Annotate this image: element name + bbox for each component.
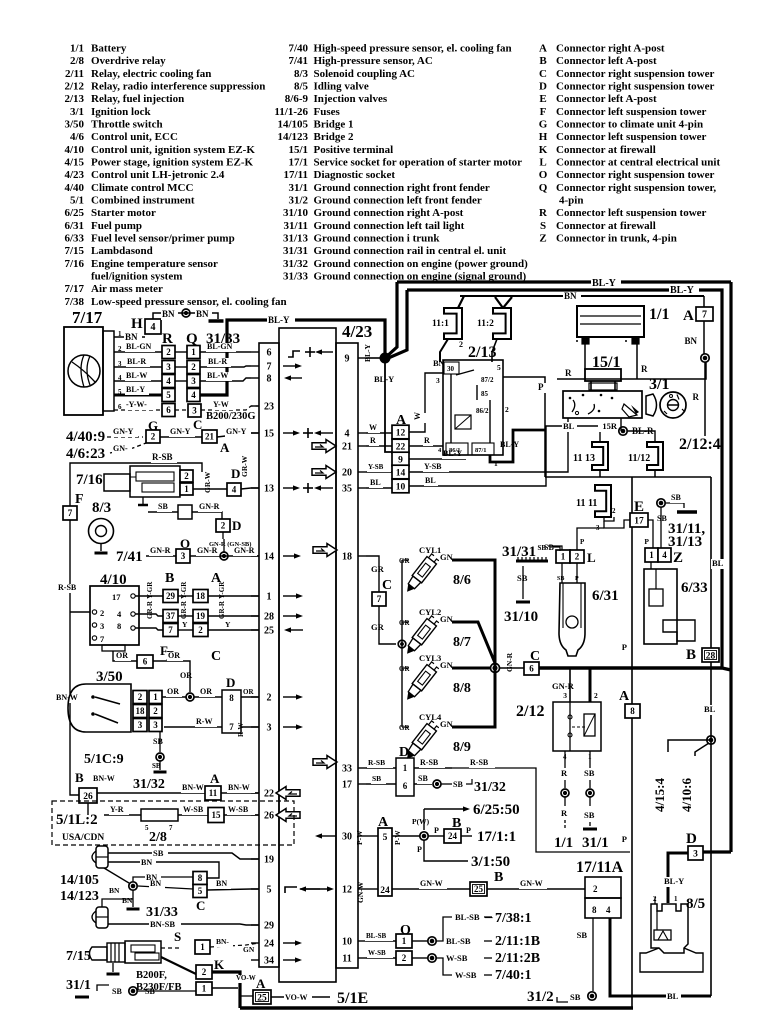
svg-text:R-SB: R-SB: [58, 583, 77, 592]
svg-text:High-pressure sensor, AC: High-pressure sensor, AC: [314, 55, 433, 67]
svg-text:86/1: 86/1: [449, 447, 461, 454]
label 4/40:9: [66, 429, 105, 445]
svg-text:BN-W: BN-W: [93, 774, 115, 783]
svg-text:F: F: [160, 643, 168, 658]
svg-text:R-SB: R-SB: [368, 758, 385, 767]
relay 2/13 internals: [433, 358, 509, 468]
svg-text:5/1E: 5/1E: [337, 990, 368, 1007]
label B200/230G: [206, 411, 256, 422]
ground 31/1 left: [66, 978, 196, 997]
control unit 4/10 box: [90, 586, 139, 651]
svg-text:2/11:2B: 2/11:2B: [495, 951, 540, 966]
label 2/12:4: [679, 436, 721, 453]
svg-text:Lambdasond: Lambdasond: [91, 245, 153, 257]
svg-text:8/8: 8/8: [453, 681, 471, 696]
svg-text:2: 2: [593, 884, 598, 894]
pin numbers right strip of 4/23: [342, 354, 366, 965]
svg-text:2: 2: [151, 432, 156, 442]
wire R row: [366, 436, 443, 446]
svg-text:GR: GR: [371, 564, 385, 574]
svg-text:3: 3: [191, 376, 196, 386]
svg-text:A: A: [683, 308, 694, 324]
label 8/3: [92, 500, 111, 516]
USA/CDN dashed box: [52, 801, 294, 845]
svg-text:Connector right suspension tow: Connector right suspension tower: [556, 169, 715, 181]
label R column: [162, 331, 173, 347]
svg-text:BN: BN: [196, 309, 209, 319]
connector K box 2: [196, 957, 225, 979]
svg-text:SB: SB: [418, 774, 428, 783]
svg-text:7/17: 7/17: [64, 283, 84, 295]
svg-text:L: L: [587, 550, 596, 565]
wire BL-SB row10: [365, 932, 436, 945]
wire GN-Y mid: [160, 427, 202, 437]
legend key text: [64, 43, 720, 308]
ground 31/10: [504, 566, 538, 625]
connector boxes 7/16: [180, 470, 193, 495]
svg-text:OR: OR: [180, 671, 192, 680]
svg-text:2: 2: [138, 692, 143, 702]
svg-text:31/10: 31/10: [504, 609, 538, 625]
svg-text:BL: BL: [563, 421, 575, 431]
svg-text:S: S: [174, 929, 181, 944]
svg-text:BL: BL: [425, 476, 436, 485]
svg-text:BL: BL: [712, 558, 724, 568]
svg-text:4/23: 4/23: [64, 169, 84, 181]
svg-text:CYL2: CYL2: [419, 607, 441, 617]
wire SB row17: [366, 774, 506, 795]
connector A box 25 bottom: [240, 976, 271, 1004]
svg-text:SB: SB: [372, 774, 381, 783]
svg-text:Control unit, ECC: Control unit, ECC: [91, 131, 178, 143]
wire P from relay: [503, 377, 547, 477]
label 5/1L:2: [56, 812, 98, 828]
svg-text:fuel/ignition system: fuel/ignition system: [91, 271, 182, 283]
svg-text:BN: BN: [433, 358, 446, 368]
wire BN to C8: [108, 858, 219, 878]
svg-text:8/6: 8/6: [453, 573, 471, 588]
svg-text:P-W: P-W: [355, 830, 364, 845]
svg-text:6: 6: [143, 657, 148, 667]
svg-text:D: D: [686, 831, 697, 847]
svg-text:Y-SB: Y-SB: [424, 462, 442, 471]
svg-text:BL-Y: BL-Y: [126, 385, 145, 394]
fuel sender 6/33 body: [644, 569, 695, 644]
svg-text:A: A: [220, 440, 230, 455]
svg-text:P: P: [575, 576, 579, 582]
ignition lock 3/1 body: [563, 391, 657, 418]
svg-text:BN: BN: [564, 291, 577, 301]
connector Z boxes: [645, 548, 683, 566]
label GN pin24: [243, 945, 255, 954]
relay 2/13 box: [443, 360, 503, 455]
svg-text:Fuel pump: Fuel pump: [91, 220, 142, 232]
svg-text:Ground connection right A-post: Ground connection right A-post: [314, 207, 464, 219]
connector L boxes: [537, 544, 596, 565]
svg-text:31/1: 31/1: [582, 835, 609, 851]
label 7/17: [72, 308, 103, 327]
svg-text:GR: GR: [371, 622, 385, 632]
svg-text:2/8: 2/8: [70, 55, 85, 67]
svg-text:B200/230G: B200/230G: [206, 411, 256, 422]
svg-text:GN: GN: [440, 614, 454, 624]
svg-text:Fuel level sensor/primer pump: Fuel level sensor/primer pump: [91, 233, 235, 245]
svg-text:22: 22: [264, 789, 274, 800]
connector C box 21: [193, 417, 230, 455]
wire Y-GR row1: [135, 581, 259, 599]
svg-text:15/1: 15/1: [288, 144, 308, 156]
svg-text:GN-Y: GN-Y: [226, 427, 247, 436]
svg-text:GN-R: GN-R: [199, 502, 220, 511]
connector F box 6: [137, 643, 168, 668]
svg-text:25: 25: [474, 884, 484, 894]
wire fuse bottoms: [545, 470, 711, 477]
svg-text:9: 9: [398, 455, 403, 465]
svg-text:1: 1: [153, 692, 158, 702]
svg-text:SB: SB: [584, 810, 595, 820]
svg-text:7: 7: [168, 625, 173, 635]
svg-text:3/1: 3/1: [70, 106, 84, 118]
fuse 11:1: [432, 296, 464, 362]
svg-text:2: 2: [166, 347, 171, 357]
svg-text:P: P: [538, 382, 544, 392]
svg-text:C: C: [193, 417, 202, 432]
svg-text:1: 1: [561, 552, 566, 562]
svg-text:BL-SB: BL-SB: [446, 936, 471, 946]
svg-text:OR: OR: [167, 687, 179, 696]
wire OR to pin 2: [241, 688, 259, 697]
wire P drop: [622, 477, 632, 1008]
wire GN-R mid: [190, 546, 259, 556]
indicator lamp 14/123: [92, 907, 108, 928]
svg-text:31/13: 31/13: [668, 534, 702, 550]
svg-text:1: 1: [200, 942, 205, 952]
throttle switch connector boxes: [133, 691, 162, 732]
wire BL-Y relay out: [490, 430, 546, 462]
wire Y-R: [104, 805, 141, 815]
svg-text:SB: SB: [584, 768, 595, 778]
svg-text:2: 2: [184, 471, 189, 481]
svg-text:4/23: 4/23: [342, 322, 372, 341]
svg-text:24: 24: [264, 939, 274, 950]
svg-text:BL-Y: BL-Y: [592, 278, 617, 289]
svg-text:D: D: [539, 81, 547, 93]
svg-text:Starter motor: Starter motor: [91, 207, 156, 219]
svg-text:BN: BN: [141, 858, 152, 867]
svg-text:Connector left A-post: Connector left A-post: [556, 93, 657, 105]
svg-text:11: 11: [342, 954, 351, 965]
svg-text:BN-W: BN-W: [182, 783, 204, 792]
svg-text:8: 8: [198, 873, 203, 883]
connector A boxes right: [392, 425, 409, 493]
svg-text:P: P: [622, 834, 627, 844]
svg-text:6/31: 6/31: [64, 220, 84, 232]
injection valve 8/9 CYL4: [398, 712, 471, 762]
svg-text:Overdrive relay: Overdrive relay: [91, 55, 166, 67]
label B column 4/10: [165, 571, 174, 586]
svg-text:Service socket for operation o: Service socket for operation of starter …: [314, 157, 523, 169]
svg-text:Connector right suspension tow: Connector right suspension tower: [556, 68, 715, 80]
svg-text:17/11A: 17/11A: [576, 859, 624, 876]
svg-text:Throttle switch: Throttle switch: [91, 119, 163, 131]
wire BL right drop: [703, 477, 726, 996]
svg-text:Positive terminal: Positive terminal: [314, 144, 394, 156]
junction BL-Y: [380, 353, 391, 364]
svg-text:GN: GN: [440, 552, 454, 562]
connector S box 1: [174, 929, 210, 954]
svg-text:6/33: 6/33: [681, 580, 708, 596]
label 7/16: [76, 472, 103, 488]
svg-text:CYL3: CYL3: [419, 653, 441, 663]
wire BL-Y outer frame top: [397, 278, 731, 289]
svg-text:B: B: [494, 870, 503, 885]
svg-text:GN-Y: GN-Y: [170, 427, 191, 436]
svg-text:Power stage, ignition system E: Power stage, ignition system EZ-K: [91, 157, 253, 169]
svg-text:Connector left suspension towe: Connector left suspension tower: [556, 106, 707, 118]
svg-text:3: 3: [166, 362, 171, 372]
svg-text:BN-W: BN-W: [228, 783, 250, 792]
junction BN R: [693, 354, 710, 436]
svg-text:5/1C:9: 5/1C:9: [84, 752, 124, 767]
svg-text:H: H: [131, 316, 143, 332]
svg-text:GN-W: GN-W: [520, 879, 543, 888]
wire BL-Y over 4/23: [199, 315, 385, 395]
svg-text:D: D: [226, 675, 235, 690]
wire 11 11 to E17: [577, 520, 631, 550]
svg-text:2: 2: [191, 362, 196, 372]
label 17/11A: [576, 859, 624, 876]
label 4/23: [342, 322, 372, 341]
svg-text:4/15:4: 4/15:4: [652, 778, 667, 812]
svg-text:Idling valve: Idling valve: [314, 81, 369, 93]
svg-text:87/1: 87/1: [475, 447, 487, 454]
svg-text:11/1-26: 11/1-26: [274, 106, 308, 118]
label A above box5: [452, 816, 461, 831]
wire GN-R thick main: [539, 668, 731, 670]
svg-text:BN: BN: [122, 896, 133, 905]
svg-text:31/10: 31/10: [283, 207, 309, 219]
svg-text:5/1L:2: 5/1L:2: [56, 812, 98, 828]
label 1/1 battery: [649, 306, 669, 323]
connector D boxes 1-6: [396, 745, 414, 796]
svg-text:1: 1: [494, 459, 498, 468]
svg-text:7/41: 7/41: [288, 55, 308, 67]
svg-text:Battery: Battery: [91, 43, 127, 55]
svg-text:85: 85: [481, 390, 489, 398]
connector B box 28: [686, 647, 719, 663]
svg-text:21: 21: [205, 432, 215, 442]
wire GR-R row2: [135, 600, 259, 619]
svg-text:GR-R: GR-R: [218, 600, 226, 619]
label Q column: [186, 331, 198, 347]
svg-text:A: A: [256, 976, 266, 991]
wires to right labels: [436, 911, 540, 983]
label 6/33: [681, 580, 708, 596]
svg-text:Connector left A-post: Connector left A-post: [556, 55, 657, 67]
svg-text:9: 9: [345, 354, 350, 365]
svg-text:28: 28: [264, 612, 274, 623]
svg-text:Ground connection right front: Ground connection right front fender: [314, 182, 490, 194]
svg-text:3: 3: [100, 621, 104, 631]
svg-text:L: L: [539, 157, 546, 169]
injection valve 8/8 CYL3: [398, 653, 471, 703]
svg-text:OR: OR: [168, 651, 180, 660]
svg-text:-Y-W-: -Y-W-: [126, 400, 147, 409]
svg-text:SB: SB: [158, 502, 168, 511]
svg-text:VO-W: VO-W: [236, 974, 256, 982]
svg-text:SB: SB: [557, 576, 564, 582]
wire BL-Y row: [409, 449, 466, 459]
label 7/41: [116, 549, 143, 565]
svg-text:3: 3: [192, 406, 197, 416]
svg-text:BN-SB: BN-SB: [150, 919, 175, 929]
svg-text:35: 35: [342, 484, 352, 495]
svg-text:W: W: [413, 412, 422, 420]
svg-text:15: 15: [264, 429, 274, 440]
svg-text:11 11: 11 11: [576, 498, 597, 509]
svg-text:A: A: [210, 771, 220, 786]
signal arrows inside 4/23: [276, 347, 337, 963]
wire BN dashed to pin24: [210, 937, 259, 947]
wire BN-SB row29: [108, 919, 259, 930]
svg-text:Air mass meter: Air mass meter: [91, 283, 163, 295]
svg-text:31/1: 31/1: [66, 978, 91, 993]
svg-text:18: 18: [342, 552, 352, 563]
svg-text:31/32: 31/32: [283, 258, 309, 270]
label O column bottom: [400, 923, 411, 938]
svg-text:19: 19: [264, 855, 274, 866]
fuse 11:2: [477, 297, 512, 362]
wire to 4/15:4: [652, 740, 711, 812]
svg-text:Control unit LH-jetronic 2.4: Control unit LH-jetronic 2.4: [91, 169, 225, 181]
ground 31/2: [527, 989, 596, 1005]
connector strip right of 4/23: [336, 343, 358, 968]
svg-text:GN: GN: [440, 660, 454, 670]
svg-text:2: 2: [267, 693, 272, 704]
svg-text:R-W: R-W: [237, 723, 245, 737]
svg-text:B: B: [165, 571, 174, 586]
svg-text:1: 1: [202, 984, 207, 994]
svg-text:2/13: 2/13: [468, 344, 496, 361]
svg-text:Y-GR: Y-GR: [218, 581, 226, 599]
label C below A: [211, 649, 221, 664]
svg-text:3/50: 3/50: [64, 119, 84, 131]
svg-text:GR-R: GR-R: [146, 600, 154, 619]
svg-text:2: 2: [153, 706, 158, 716]
wire OR row to D8: [162, 687, 222, 697]
svg-text:SB: SB: [153, 737, 163, 746]
resistor 2/8: [141, 809, 178, 845]
connector A tall box 5-24: [378, 815, 392, 896]
svg-text:22: 22: [396, 442, 406, 452]
label VO-W small: [235, 974, 261, 983]
wire W-SB row11: [366, 949, 436, 962]
svg-text:18: 18: [196, 591, 206, 601]
label 31/32 left: [133, 777, 165, 792]
wire to 6/25:50: [424, 802, 520, 830]
svg-text:GN-R: GN-R: [552, 681, 575, 691]
svg-text:7/38:1: 7/38:1: [495, 911, 532, 926]
connector O box 3: [176, 536, 190, 563]
connector E box 17: [630, 499, 648, 527]
svg-text:17: 17: [342, 780, 352, 791]
svg-text:2/12: 2/12: [64, 81, 84, 93]
svg-text:Injection valves: Injection valves: [314, 93, 388, 105]
svg-text:11:2: 11:2: [477, 319, 494, 329]
label 2/12: [516, 703, 544, 720]
svg-text:14/105: 14/105: [60, 873, 99, 888]
svg-text:A: A: [619, 689, 630, 704]
wire BL-W row: [114, 371, 251, 381]
injection valve 8/6 CYL1: [398, 545, 471, 595]
svg-text:6: 6: [166, 405, 171, 415]
fuel pump 6/31 body: [557, 563, 585, 656]
wire GN dashed: [110, 443, 146, 454]
svg-text:30: 30: [342, 832, 352, 843]
svg-text:29: 29: [166, 591, 176, 601]
svg-text:31/31: 31/31: [283, 245, 308, 257]
pin numbers left strip of 4/23: [251, 348, 274, 967]
svg-text:8: 8: [117, 621, 121, 631]
svg-text:2: 2: [221, 521, 226, 531]
svg-text:Ground connection left tail li: Ground connection left tail light: [314, 220, 465, 232]
svg-text:2: 2: [594, 691, 598, 700]
wire W row: [366, 373, 443, 433]
label 2/13: [468, 344, 496, 361]
wire Y row3: [135, 620, 259, 630]
svg-text:87/2: 87/2: [481, 376, 494, 384]
svg-text:Q: Q: [186, 331, 198, 347]
svg-text:31/2: 31/2: [288, 195, 308, 207]
wire W-SB row: [178, 805, 259, 823]
svg-text:4: 4: [117, 609, 122, 619]
svg-text:Y-GR: Y-GR: [146, 581, 154, 599]
svg-text:5: 5: [198, 886, 203, 896]
svg-text:14: 14: [396, 468, 406, 478]
svg-text:2: 2: [402, 953, 407, 963]
svg-text:GR-W: GR-W: [203, 471, 212, 493]
svg-text:Connector right A-post: Connector right A-post: [556, 43, 665, 55]
svg-text:2: 2: [575, 552, 580, 562]
label 31/11 31/13: [668, 521, 705, 550]
svg-text:BL-Y: BL-Y: [374, 374, 394, 384]
svg-text:4: 4: [345, 429, 350, 440]
relay 2/12 lower pins: [561, 751, 597, 829]
svg-text:Ground connection on engine (p: Ground connection on engine (power groun…: [314, 258, 529, 270]
svg-text:31/32: 31/32: [474, 780, 506, 795]
svg-text:5: 5: [166, 390, 171, 400]
wire BN to pin5: [207, 879, 259, 890]
fuse 11 11: [576, 477, 616, 532]
svg-text:5: 5: [383, 833, 388, 843]
wire Y-SB row: [366, 418, 568, 472]
svg-text:29: 29: [264, 921, 274, 932]
wire GN collector: [452, 560, 495, 727]
connector D box 2: [216, 518, 241, 533]
wire F7 down: [55, 520, 90, 795]
junction BL 4/10:6: [707, 736, 715, 744]
svg-text:P: P: [434, 826, 439, 835]
svg-text:31/11: 31/11: [284, 220, 308, 232]
wire P to 3/1:50: [417, 840, 510, 870]
svg-text:7: 7: [377, 594, 382, 604]
connector F box 7: [63, 492, 84, 520]
svg-text:13: 13: [264, 484, 274, 495]
svg-text:3: 3: [693, 849, 698, 859]
svg-text:Y-R: Y-R: [110, 805, 124, 814]
svg-text:Relay, radio interference supp: Relay, radio interference suppression: [91, 81, 265, 93]
svg-text:15R: 15R: [602, 421, 618, 431]
